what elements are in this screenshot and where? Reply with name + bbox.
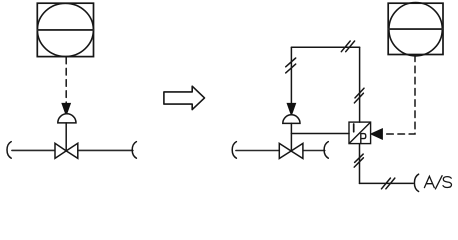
instrument bubble divider line (right) [388,28,442,30]
pipe break symbol (right end of right pipe) [324,142,328,159]
pipe break symbol (left end of left pipe) [7,142,11,159]
pneumatic signal vertical line (down to right actuator) [290,47,292,103]
instrument bubble divider line (left) [38,29,94,31]
instrument bubble square (right, shared display) [388,3,443,54]
diaphragm actuator dome (left) [58,114,76,123]
air supply vertical line (below I/P box) [359,144,361,184]
pipe line (left figure) [12,149,133,151]
label A/S (air supply) [424,176,451,189]
double slash marks on air supply horizontal line [382,178,395,189]
control valve body bowtie (right) [279,143,303,158]
valve stem (right) [290,123,292,150]
pipe line (right figure) [236,150,325,152]
I/P converter box [349,122,371,144]
connector from valve stem to I/P box [291,133,349,135]
label P (inside I/P box) [361,134,366,144]
double slash marks on top horizontal line [341,41,354,52]
double slash marks on air supply vertical line [354,154,363,167]
actuator arrowhead (left, filled, pointing down) [62,103,70,115]
instrument bubble circle (left) [37,3,93,56]
instrument bubble square (left, shared display) [37,3,93,56]
pipe break symbol (air supply line end) [414,174,418,191]
I/P input arrowhead (filled, pointing left) [371,129,383,139]
double slash marks on left vertical pneumatic line [286,58,296,73]
diaphragm actuator dome (right) [283,115,300,124]
right vertical pneumatic line (down to I/P box top) [359,47,361,122]
top horizontal pneumatic line [291,46,359,48]
double slash marks on right vertical line [354,88,364,103]
electric signal dashed line (right instrument down and left to I/P) [383,55,415,134]
air supply horizontal line [360,182,414,184]
label I (inside I/P box) [353,124,355,132]
instrument bubble circle (right) [389,3,442,56]
pipe break symbol (left end of right pipe) [232,142,236,159]
electric signal dashed line (left instrument to valve actuator) [65,57,67,103]
actuator arrowhead (right, filled, pointing down) [287,103,295,115]
block arrow (transition symbol, middle) [164,86,205,109]
control valve body bowtie (left) [55,143,78,158]
valve stem (left) [65,123,67,150]
I/P box diagonal divider [349,122,370,143]
pipe break symbol (right end of left pipe) [132,142,136,159]
